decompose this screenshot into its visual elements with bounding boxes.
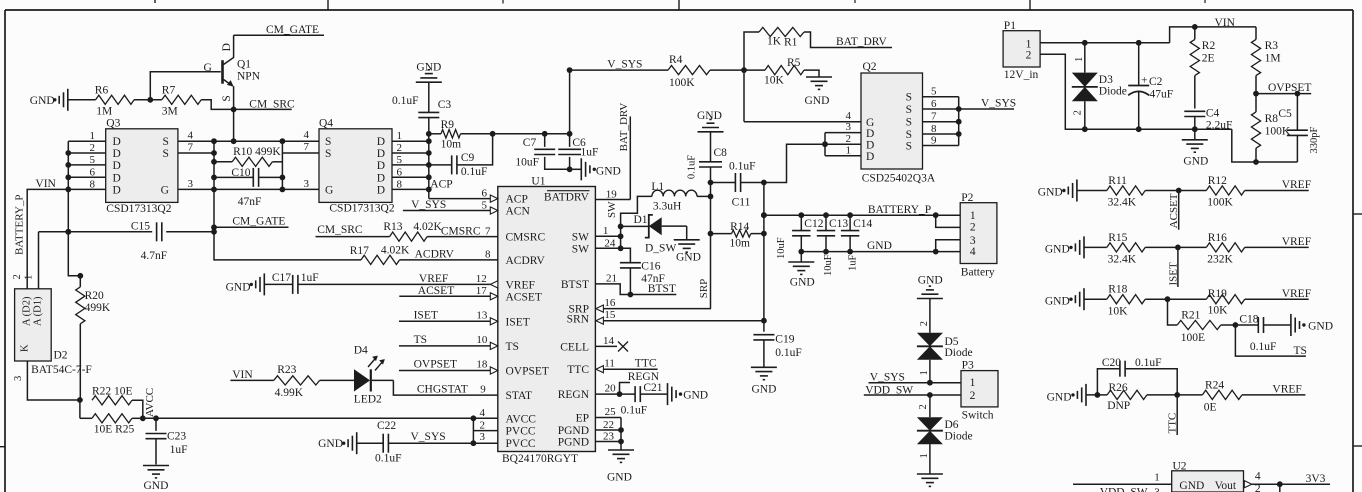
svg-text:Battery: Battery: [961, 267, 995, 279]
node TS: [399, 334, 498, 350]
svg-text:0.1uF: 0.1uF: [392, 95, 419, 107]
svg-text:S: S: [906, 117, 912, 129]
svg-text:NPN: NPN: [237, 71, 261, 83]
svg-text:G: G: [325, 184, 333, 196]
ground: [1045, 288, 1084, 310]
capacitor C18: [1233, 314, 1291, 354]
svg-text:Q4: Q4: [319, 118, 333, 130]
ground: [917, 474, 943, 486]
node SRP: [596, 279, 711, 312]
svg-text:R21: R21: [1181, 310, 1200, 322]
wire SRP vertical: [708, 183, 714, 309]
ground: [416, 62, 442, 83]
svg-text:11: 11: [604, 358, 615, 370]
resistor R7: [162, 85, 201, 118]
node 3V3: [1244, 471, 1330, 492]
svg-text:+: +: [1141, 74, 1148, 86]
svg-text:G: G: [204, 62, 212, 74]
svg-text:R13: R13: [383, 221, 402, 233]
svg-text:3: 3: [13, 376, 24, 381]
node battery GND row: [798, 240, 938, 254]
wire: [68, 99, 96, 101]
svg-text:BAT_DRV: BAT_DRV: [618, 103, 630, 152]
transistor Q2: [861, 61, 936, 185]
ground: [1045, 236, 1084, 258]
node VIN stub: [230, 369, 273, 381]
svg-text:U1: U1: [531, 176, 545, 188]
svg-text:3: 3: [1154, 487, 1160, 492]
svg-text:GND: GND: [1179, 480, 1204, 492]
svg-text:VREF: VREF: [1282, 236, 1311, 248]
wire: [150, 72, 221, 100]
svg-text:47nF: 47nF: [238, 196, 262, 208]
svg-text:PVCC: PVCC: [506, 426, 536, 438]
svg-text:OVPSET: OVPSET: [1268, 82, 1311, 94]
svg-text:R9: R9: [441, 119, 455, 131]
svg-text:VREF: VREF: [1272, 384, 1301, 396]
svg-text:47uF: 47uF: [1150, 88, 1174, 100]
capacitor C7: [515, 134, 569, 170]
svg-text:4.7nF: 4.7nF: [141, 250, 168, 262]
svg-text:15: 15: [604, 309, 616, 321]
op-amp U1 (charger IC BQ24170RGYT): [498, 176, 596, 466]
resistor R13: [383, 221, 442, 241]
svg-text:10E R25: 10E R25: [94, 424, 135, 436]
resistor R16: [1206, 232, 1244, 266]
svg-text:ISET: ISET: [506, 316, 530, 328]
svg-text:S: S: [906, 104, 912, 116]
resistor R17: [350, 245, 410, 265]
svg-text:Q3: Q3: [106, 118, 120, 130]
svg-text:D: D: [377, 148, 385, 160]
svg-text:3.3uH: 3.3uH: [653, 201, 681, 213]
svg-text:100K: 100K: [669, 77, 695, 89]
svg-text:D: D: [377, 184, 385, 196]
svg-text:BATDRV: BATDRV: [544, 192, 590, 204]
node SRN: [596, 309, 767, 324]
svg-text:BAT_DRV: BAT_DRV: [836, 36, 888, 48]
ground: [30, 89, 68, 111]
node VIN: [1170, 17, 1256, 43]
node BATTERY_P: [14, 194, 26, 255]
svg-text:5: 5: [90, 154, 96, 166]
svg-text:D: D: [377, 160, 385, 172]
resistor R24: [1202, 380, 1242, 414]
svg-text:C19: C19: [775, 334, 794, 346]
svg-text:D6: D6: [945, 419, 959, 431]
wire: [27, 361, 82, 403]
svg-text:GND: GND: [752, 384, 777, 396]
svg-text:330pF: 330pF: [1309, 127, 1320, 154]
svg-text:PGND: PGND: [558, 437, 589, 449]
capacitor C15: [39, 221, 215, 263]
svg-text:C4: C4: [1206, 108, 1220, 120]
svg-text:6: 6: [397, 166, 403, 178]
svg-text:VIN: VIN: [1215, 17, 1236, 29]
capacitor C19: [753, 321, 801, 367]
svg-text:Diode: Diode: [1099, 86, 1127, 98]
svg-text:R16: R16: [1208, 232, 1227, 244]
svg-text:OVPSET: OVPSET: [414, 359, 457, 371]
transistor Q1: [204, 35, 261, 109]
capacitor C6: [558, 134, 598, 172]
svg-text:C22: C22: [377, 420, 396, 432]
svg-text:1M: 1M: [96, 106, 112, 118]
svg-text:R8: R8: [1265, 113, 1279, 125]
node CMSRC: [427, 225, 498, 237]
regulator U2: [1172, 460, 1244, 492]
svg-text:C10: C10: [231, 167, 250, 179]
svg-text:D_SW: D_SW: [645, 243, 676, 255]
svg-text:GND: GND: [867, 240, 892, 252]
svg-text:1: 1: [397, 130, 403, 142]
svg-text:D: D: [113, 172, 121, 184]
wire: [570, 168, 582, 170]
ground: [1047, 384, 1086, 406]
svg-text:GND: GND: [918, 275, 943, 287]
svg-text:4: 4: [1255, 471, 1261, 483]
svg-text:C11: C11: [732, 197, 751, 209]
ground: [581, 158, 621, 180]
svg-text:8: 8: [931, 123, 937, 135]
node VDD_SW: [864, 385, 961, 398]
svg-text:P2: P2: [961, 192, 973, 204]
svg-text:3V3: 3V3: [1306, 473, 1326, 485]
svg-text:R12: R12: [1208, 175, 1227, 187]
svg-text:G: G: [161, 184, 169, 196]
svg-text:GND: GND: [683, 390, 708, 402]
svg-text:10m: 10m: [730, 238, 751, 250]
svg-text:TS: TS: [1294, 345, 1307, 357]
svg-text:0.1uF: 0.1uF: [1250, 341, 1277, 353]
svg-text:D1: D1: [634, 214, 648, 226]
svg-text:0.1uF: 0.1uF: [687, 155, 698, 179]
svg-text:3: 3: [304, 178, 310, 190]
svg-text:R2: R2: [1202, 40, 1216, 52]
svg-text:VREF: VREF: [1282, 179, 1311, 191]
wire PVCC bus: [471, 418, 498, 446]
svg-text:V_SYS: V_SYS: [411, 199, 446, 211]
wire: [918, 395, 930, 417]
wire Q2 D pins: [822, 121, 861, 156]
svg-text:100E: 100E: [1181, 332, 1205, 344]
capacitor C12: [776, 215, 824, 259]
svg-text:R4: R4: [669, 54, 683, 66]
svg-text:ACP: ACP: [506, 194, 528, 206]
svg-text:8: 8: [485, 249, 491, 261]
svg-text:VREF: VREF: [419, 273, 448, 285]
svg-text:1: 1: [24, 275, 35, 280]
resistor R23: [274, 364, 320, 399]
svg-text:AVCC: AVCC: [144, 388, 156, 417]
capacitor C2 (polarized): [1128, 43, 1173, 129]
svg-text:GND: GND: [607, 472, 632, 484]
wire: [919, 444, 930, 473]
svg-text:R14: R14: [730, 221, 749, 233]
svg-text:TS: TS: [414, 334, 427, 346]
resistor R3: [1251, 27, 1280, 94]
svg-text:D: D: [113, 184, 121, 196]
svg-text:C17: C17: [272, 272, 291, 284]
svg-text:4: 4: [970, 246, 976, 258]
svg-text:D: D: [221, 43, 233, 51]
svg-text:R23: R23: [277, 364, 296, 376]
svg-text:16: 16: [604, 297, 616, 309]
resistor R5: [764, 57, 819, 87]
svg-text:C3: C3: [438, 99, 452, 111]
svg-text:R10 499K: R10 499K: [233, 146, 281, 158]
capacitor C13: [817, 215, 849, 276]
transistor Q3: [106, 118, 178, 216]
svg-text:CM_SRC: CM_SRC: [249, 98, 295, 110]
connector P1 (12V_in): [1003, 20, 1040, 81]
node ISET: [399, 309, 498, 325]
svg-text:STAT: STAT: [506, 390, 533, 402]
svg-text:10uF: 10uF: [776, 237, 787, 259]
svg-text:3M: 3M: [162, 106, 178, 118]
svg-text:14: 14: [603, 335, 615, 347]
svg-text:SRP: SRP: [698, 279, 710, 299]
svg-text:5: 5: [931, 86, 937, 98]
svg-text:R20: R20: [85, 290, 104, 302]
svg-text:SW: SW: [572, 243, 589, 255]
svg-text:TTC: TTC: [567, 364, 589, 376]
svg-text:0.1uF: 0.1uF: [375, 453, 402, 465]
svg-text:9: 9: [931, 134, 937, 146]
svg-text:R6: R6: [95, 85, 109, 97]
svg-text:C8: C8: [714, 147, 728, 159]
svg-text:3: 3: [846, 121, 852, 133]
svg-text:7: 7: [931, 111, 937, 123]
node OVPSET: [399, 359, 498, 375]
node TTC stub: [1167, 395, 1179, 435]
svg-text:1uF: 1uF: [170, 444, 188, 456]
svg-text:R5: R5: [787, 57, 801, 69]
node VREF: [1242, 384, 1305, 396]
svg-text:GND: GND: [1183, 156, 1208, 168]
wire P1 pin1: [1040, 40, 1170, 46]
node AVCC wire: [140, 388, 498, 421]
svg-text:C20: C20: [1102, 357, 1121, 369]
svg-text:1: 1: [846, 144, 852, 156]
resistor R1 / node BAT_DRV: [744, 27, 892, 70]
svg-text:4: 4: [480, 407, 486, 419]
svg-text:4.02K: 4.02K: [413, 221, 442, 233]
svg-text:100K: 100K: [1207, 197, 1233, 209]
svg-text:BAT54C-7-F: BAT54C-7-F: [31, 364, 92, 376]
wire: [1147, 392, 1203, 398]
svg-text:4.99K: 4.99K: [275, 387, 304, 399]
capacitor C22: [357, 420, 474, 465]
svg-text:13: 13: [476, 309, 488, 321]
capacitor C16: [620, 248, 665, 294]
svg-text:VREF: VREF: [506, 279, 535, 291]
node ACSET stub: [1168, 191, 1180, 230]
svg-text:2: 2: [919, 321, 930, 326]
svg-text:GND: GND: [416, 62, 441, 74]
svg-text:10K: 10K: [1108, 306, 1129, 318]
svg-text:GND: GND: [1038, 187, 1063, 199]
svg-text:GND: GND: [676, 252, 701, 264]
wire SRN vertical: [761, 183, 767, 321]
U1 power pin numbers: [480, 407, 486, 443]
node CM_GATE stub: [214, 215, 289, 227]
svg-text:S: S: [906, 92, 912, 104]
svg-text:18: 18: [476, 359, 488, 371]
wire: [1084, 43, 1086, 129]
resistor R12: [1206, 175, 1244, 209]
svg-text:EP: EP: [576, 413, 589, 425]
wire: [1145, 296, 1206, 302]
svg-text:GND: GND: [226, 281, 251, 293]
svg-text:CM_SRC: CM_SRC: [317, 224, 363, 236]
svg-text:LED2: LED2: [354, 394, 382, 406]
ground: [805, 77, 833, 107]
svg-text:1: 1: [970, 210, 976, 222]
resistor R9: [426, 119, 573, 151]
svg-text:20: 20: [605, 383, 617, 395]
node ISET stub: [1167, 247, 1179, 287]
svg-text:ISET: ISET: [414, 309, 438, 321]
svg-text:1: 1: [970, 377, 976, 389]
svg-text:GND: GND: [805, 95, 830, 107]
Q3 left pin wires: [68, 130, 105, 190]
node V_SYS top: [567, 59, 668, 134]
svg-text:CMSRC: CMSRC: [441, 225, 481, 237]
svg-text:S: S: [325, 148, 331, 160]
svg-text:BTST: BTST: [561, 279, 589, 291]
wire: [1145, 245, 1206, 251]
svg-text:GND: GND: [1045, 296, 1070, 308]
node V_SYS label: [411, 431, 446, 443]
svg-text:2.2uF: 2.2uF: [1206, 120, 1233, 132]
svg-text:D: D: [866, 128, 874, 140]
svg-text:D: D: [113, 160, 121, 172]
svg-text:10: 10: [476, 334, 488, 346]
LED D4 (LED2): [354, 345, 394, 406]
ground: [1038, 180, 1077, 202]
svg-text:6: 6: [90, 166, 96, 178]
diode D2: [12, 274, 92, 381]
svg-text:ACN: ACN: [506, 206, 531, 218]
svg-text:GND: GND: [30, 95, 55, 107]
resistor R15: [1084, 232, 1145, 266]
wire: [1145, 188, 1206, 194]
node VDD_SW to U2: [1073, 472, 1172, 492]
wire: [201, 100, 233, 110]
capacitor C11: [708, 161, 767, 209]
node CM_SRC stub: [316, 224, 390, 236]
svg-text:23: 23: [603, 431, 615, 443]
svg-text:S: S: [162, 148, 168, 160]
node CHGSTAT: [393, 380, 497, 395]
svg-text:A (D2): A (D2): [22, 296, 33, 326]
capacitor C14: [841, 215, 873, 271]
svg-text:S: S: [221, 95, 233, 101]
svg-text:Switch: Switch: [962, 409, 994, 421]
svg-text:R19: R19: [1208, 288, 1227, 300]
svg-text:BQ24170RGYT: BQ24170RGYT: [502, 453, 578, 465]
svg-text:2: 2: [1073, 110, 1084, 115]
svg-text:7: 7: [304, 141, 310, 153]
svg-text:SW: SW: [606, 201, 618, 218]
node BATTERY_P row: [761, 204, 939, 218]
node BAT_DRV: [595, 103, 630, 201]
svg-text:U2: U2: [1173, 460, 1187, 472]
wire to BTST pin: [595, 273, 630, 295]
resistor R11: [1077, 175, 1145, 209]
ground: [788, 252, 814, 289]
svg-text:4.02K: 4.02K: [381, 245, 410, 257]
svg-text:R17: R17: [350, 245, 369, 257]
svg-text:24: 24: [604, 237, 616, 249]
svg-text:VREF: VREF: [1282, 288, 1311, 300]
svg-text:4: 4: [304, 129, 310, 141]
svg-text:0.1uF: 0.1uF: [1135, 357, 1162, 369]
inductor L1: [651, 181, 710, 213]
node OVPSET: [1253, 82, 1311, 96]
ground: [607, 450, 634, 484]
svg-text:2: 2: [1026, 49, 1032, 61]
svg-text:C14: C14: [853, 218, 872, 230]
svg-text:D: D: [866, 151, 874, 163]
svg-text:2: 2: [970, 222, 976, 234]
svg-text:TTC: TTC: [635, 358, 657, 370]
svg-text:R7: R7: [162, 85, 176, 97]
svg-text:0.1uF: 0.1uF: [729, 161, 756, 173]
capacitor C5: [1278, 94, 1320, 162]
connector P3 (Switch): [961, 359, 998, 421]
svg-text:C13: C13: [829, 218, 848, 230]
svg-text:Q1: Q1: [237, 59, 251, 71]
node CM_SRC: [231, 98, 295, 112]
svg-text:K: K: [20, 344, 31, 352]
svg-text:32.4K: 32.4K: [1108, 197, 1137, 209]
diode D6: [917, 417, 973, 444]
node SW bus: [595, 196, 652, 251]
svg-text:C15: C15: [131, 221, 150, 233]
Q4 right pin wires: [392, 130, 429, 190]
resistor R10: [214, 146, 282, 166]
svg-text:D3: D3: [1099, 74, 1113, 86]
svg-text:6: 6: [931, 98, 937, 110]
svg-text:V_SYS: V_SYS: [411, 431, 446, 443]
node V_SYS to switch: [869, 371, 962, 385]
svg-text:ACSET: ACSET: [418, 285, 454, 297]
ground: [697, 110, 724, 132]
svg-text:V_SYS: V_SYS: [870, 371, 905, 383]
svg-text:BATTERY_P: BATTERY_P: [14, 194, 26, 255]
svg-text:12V_in: 12V_in: [1004, 69, 1039, 81]
svg-text:32.4K: 32.4K: [1108, 254, 1137, 266]
ground: [1291, 314, 1333, 336]
svg-text:GND: GND: [1308, 321, 1333, 333]
svg-text:2: 2: [970, 390, 976, 402]
svg-text:2E: 2E: [1202, 53, 1215, 65]
wire Q2 gate: [744, 70, 861, 122]
svg-text:CM_GATE: CM_GATE: [266, 24, 319, 36]
capacitor C23: [146, 418, 188, 464]
svg-text:3: 3: [188, 178, 194, 190]
svg-text:7: 7: [485, 225, 491, 237]
svg-text:S: S: [162, 136, 168, 148]
node VIN: [27, 178, 68, 289]
svg-text:2: 2: [90, 142, 96, 154]
svg-text:PVCC: PVCC: [506, 438, 536, 450]
node ACDRV: [400, 249, 498, 261]
svg-text:1: 1: [919, 370, 930, 375]
svg-text:1: 1: [1074, 57, 1085, 62]
